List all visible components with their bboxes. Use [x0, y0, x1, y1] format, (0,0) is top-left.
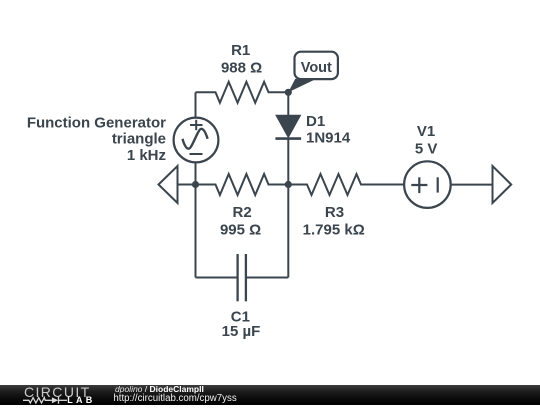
- wire: V1 right lead to right ground: [451, 184, 493, 186]
- function generator source (triangle 1 kHz): [174, 118, 219, 163]
- footer attribution bar: [0, 385, 540, 405]
- resistor R2: [196, 174, 289, 195]
- node junction R2/R3/D1: [285, 181, 292, 188]
- svg-text:Function Generator: Function Generator: [27, 115, 166, 132]
- svg-text:Vout: Vout: [301, 60, 332, 76]
- svg-text:5 V: 5 V: [415, 140, 438, 157]
- svg-text:triangle: triangle: [112, 130, 166, 147]
- CircuitLab logo resistor-diode glyph: [23, 397, 67, 404]
- svg-text:1N914: 1N914: [306, 129, 351, 146]
- svg-text:V1: V1: [417, 123, 435, 140]
- svg-text:995 Ω: 995 Ω: [220, 221, 261, 238]
- wire: bottom rail right segment: [246, 277, 288, 279]
- svg-text:LAB: LAB: [67, 395, 95, 405]
- wire: bottom rail left segment: [196, 277, 238, 279]
- wire: left rail from node down to bottom rail: [195, 185, 197, 278]
- capacitor C1: [238, 254, 246, 301]
- resistor R3: [288, 174, 404, 195]
- diode D1: [275, 92, 301, 184]
- svg-text:R1: R1: [231, 42, 250, 59]
- wire: function generator bottom lead to node: [195, 163, 197, 185]
- node junction Vout (R1/D1): [285, 89, 292, 96]
- svg-text:988 Ω: 988 Ω: [221, 60, 262, 77]
- svg-text:R2: R2: [233, 204, 252, 221]
- svg-text:http://circuitlab.com/cpw7yss: http://circuitlab.com/cpw7yss: [113, 393, 236, 404]
- ground (right): [493, 166, 512, 203]
- svg-text:D1: D1: [306, 113, 325, 130]
- svg-text:R3: R3: [325, 204, 344, 221]
- svg-text:1.795 kΩ: 1.795 kΩ: [303, 221, 365, 238]
- voltage source V1: [404, 161, 451, 208]
- wire: R1 left lead down to function generator top: [195, 92, 197, 118]
- wire: right rail from node down to bottom rail: [287, 185, 289, 278]
- resistor R1: [196, 82, 289, 103]
- wire: left ground to node: [178, 184, 196, 186]
- node junction at function generator bottom: [192, 181, 199, 188]
- svg-text:15 µF: 15 µF: [222, 323, 261, 340]
- svg-text:1 kHz: 1 kHz: [127, 147, 166, 164]
- ground (left): [159, 166, 178, 203]
- node label Vout (callout): [288, 52, 338, 93]
